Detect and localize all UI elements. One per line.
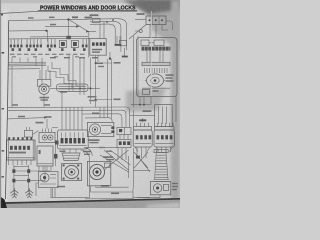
A1 inner line bbox=[135, 143, 152, 145]
K3 divider bbox=[124, 127, 126, 134]
small box B2 bbox=[120, 40, 127, 45]
right edge shadow band bbox=[171, 0, 180, 208]
assembly label line 2 bbox=[166, 77, 173, 78]
connector band ticks bbox=[145, 47, 170, 51]
JB label below 2 bbox=[89, 100, 97, 101]
S3 circle left dot bbox=[44, 137, 46, 139]
master switch right double border bbox=[32, 140, 34, 160]
wire M6 bottom bbox=[137, 195, 160, 198]
mid bus drops bbox=[100, 107, 104, 118]
component circle inner bbox=[43, 176, 46, 179]
left rail down bbox=[11, 66, 13, 107]
JB inner line 2 bbox=[59, 88, 87, 90]
M5 inner box bbox=[105, 163, 110, 167]
label above F1 bbox=[90, 14, 99, 16]
M4 end pins bbox=[111, 126, 114, 129]
node dot cluster bbox=[106, 21, 108, 23]
wire across y147 bbox=[85, 147, 117, 149]
motor M1 feed wires bbox=[40, 70, 50, 79]
assembly bottom box bbox=[143, 89, 150, 94]
console switch inner ticks bbox=[62, 132, 84, 137]
master switch label row bbox=[9, 152, 26, 154]
door lock motor M6 box bbox=[150, 181, 170, 194]
M4 label bbox=[89, 139, 100, 141]
wire U1 drop 2 bbox=[155, 25, 157, 38]
bottom page edge line bbox=[0, 198, 180, 204]
left edge mark y52 bbox=[2, 52, 5, 54]
labels mid row y57 bbox=[50, 57, 98, 58]
ladder connector blob 1 bbox=[12, 169, 15, 173]
node dot y88b bbox=[90, 87, 92, 89]
A2 bottom drops bbox=[157, 147, 171, 152]
assembly bottom label bbox=[153, 90, 159, 92]
node dot 2 bbox=[143, 104, 145, 106]
assembly label line 3 bbox=[166, 80, 174, 81]
motor M1 inner bbox=[42, 87, 47, 92]
dangling connector pair bbox=[117, 36, 120, 44]
conduit rungs bbox=[155, 152, 168, 177]
label r1 bbox=[114, 62, 121, 64]
component circle bbox=[40, 173, 49, 182]
wire to C0 bbox=[135, 30, 139, 32]
wire out of U1 right bbox=[166, 21, 172, 30]
center verticals b bbox=[80, 58, 84, 96]
group box pins bbox=[92, 42, 105, 45]
conduit accordion left rail bbox=[155, 150, 157, 179]
A1 contact blobs bbox=[136, 135, 151, 139]
K4 pins above bbox=[120, 135, 128, 140]
bottom edge dark band bbox=[0, 198, 180, 208]
left mid bus 2 bbox=[9, 65, 47, 67]
relay box K4 bbox=[117, 139, 131, 147]
schematic left border line bbox=[6, 21, 9, 200]
rail 2 bbox=[41, 66, 43, 84]
left edge mark y108 bbox=[2, 108, 4, 110]
actuator center bbox=[154, 79, 157, 82]
M6 label 3 bbox=[172, 189, 177, 190]
group box label 1 bbox=[92, 49, 102, 51]
motor M3 frame bbox=[62, 163, 82, 180]
S3 housing inner mark bbox=[39, 150, 41, 154]
inline connector C0 bbox=[139, 30, 142, 33]
label HOT AT ALL TIMES bbox=[85, 17, 93, 19]
switch S2 tall box bbox=[71, 40, 78, 47]
wire drop to row bbox=[47, 31, 49, 42]
switch row contact blobs row2 bbox=[12, 48, 86, 51]
door switch A1 top bar bbox=[134, 127, 152, 130]
node dot r1 bbox=[95, 62, 97, 64]
label y91 bbox=[60, 91, 67, 93]
ladder rung 2 bbox=[14, 170, 50, 172]
M4 end pin 2 bbox=[111, 130, 114, 133]
motor M1 top block bbox=[37, 79, 50, 86]
ladder rail right bbox=[28, 165, 30, 192]
label r2 bbox=[114, 99, 121, 101]
loop connector blob bbox=[136, 156, 140, 159]
ladder rail left bbox=[13, 165, 15, 192]
cluster label bbox=[36, 122, 44, 124]
cluster ticks bbox=[27, 127, 30, 130]
console switch bottom tabs bbox=[64, 149, 76, 153]
connector end block bbox=[66, 36, 71, 39]
motor M1 center bbox=[43, 88, 45, 90]
group box lower label 2 bbox=[98, 66, 104, 67]
M4 label2 bbox=[90, 142, 99, 143]
node J2 junction dot bbox=[45, 30, 47, 32]
M6 center bbox=[156, 187, 159, 190]
paper crease over assembly bbox=[151, 11, 153, 96]
cross wire y88 bbox=[50, 87, 100, 89]
fuse box F1 bbox=[93, 18, 101, 22]
center verticals a bbox=[69, 55, 73, 91]
master switch left double border bbox=[7, 140, 9, 160]
wire U1 drop 1 bbox=[149, 25, 151, 38]
wire cross y127.5 bbox=[52, 127, 58, 129]
door switch A1 body bbox=[133, 130, 152, 147]
cluster diagonal bbox=[33, 131, 39, 135]
left mid bus 3 bbox=[9, 63, 47, 65]
S3 top pins bbox=[43, 129, 52, 133]
bottom label 2 bbox=[111, 193, 119, 195]
A1 taper bbox=[135, 147, 150, 152]
A2 taper bbox=[156, 147, 173, 152]
actuator side tick R bbox=[164, 80, 166, 82]
left image edge line bbox=[0, 0, 1, 208]
relay U1 inner divider 2 bbox=[158, 16, 160, 25]
wire left bus 2 bbox=[9, 30, 47, 32]
crossing diagonal 3 bbox=[110, 150, 131, 165]
wire diagonal feed bbox=[70, 20, 96, 31]
connector band dark bbox=[142, 47, 171, 51]
motor M5 frame bbox=[87, 161, 110, 185]
row wire labels line1 bbox=[10, 54, 85, 55]
crossing diagonal 4 bbox=[100, 155, 129, 172]
junction block JB bbox=[57, 84, 88, 91]
ladder connector blob 3 bbox=[12, 179, 15, 183]
paper background bbox=[0, 0, 180, 208]
wire stub S bbox=[68, 20, 70, 36]
M6 inner box bbox=[163, 184, 168, 190]
pedestal bbox=[62, 153, 80, 161]
connector arrow A bbox=[86, 30, 89, 32]
switch group box right bbox=[90, 39, 106, 56]
A2 top pins bbox=[158, 123, 174, 127]
title underline bbox=[38, 10, 137, 11]
node dot cluster 2 bbox=[112, 19, 114, 21]
mid page bus 2 bbox=[8, 110, 126, 127]
motor M3 label right bbox=[83, 151, 91, 153]
wire into U1 bbox=[135, 18, 146, 20]
motor M3 oval bbox=[65, 165, 79, 178]
group box bottom stub bbox=[97, 55, 99, 62]
ground G1 bbox=[10, 188, 18, 198]
actuator oval bbox=[147, 74, 164, 87]
cylinder motor M4 body bbox=[87, 122, 113, 136]
relay U1 contact 2 bbox=[155, 19, 157, 21]
crossing diagonal 2 bbox=[104, 150, 129, 170]
M5 center bbox=[95, 170, 98, 173]
row wire labels line2 bbox=[12, 56, 79, 57]
label tag x30 bbox=[28, 17, 34, 19]
motor M1 label bbox=[40, 97, 50, 99]
relay U1 inner divider 1 bbox=[152, 16, 154, 25]
S3 right blob bbox=[54, 154, 58, 159]
motor M3 corner marks bbox=[63, 164, 80, 179]
mid page bus 1 bbox=[8, 107, 130, 127]
top margin strip bbox=[0, 0, 145, 3]
lower center verticals to switch bbox=[62, 107, 82, 130]
M6 circle bbox=[153, 184, 162, 193]
K4 inner blobs bbox=[119, 141, 130, 145]
wire mid y114 bbox=[82, 114, 122, 128]
component drop wire bbox=[36, 183, 38, 196]
wire U1 drop 3 bbox=[162, 25, 168, 30]
M5 label above2 bbox=[106, 159, 114, 160]
right rail lower bbox=[132, 148, 134, 188]
component box lower-left-right bbox=[38, 172, 58, 188]
S3 circle left bbox=[42, 135, 47, 140]
bottom-right light sliver bbox=[146, 203, 180, 208]
wire M1 to bus bbox=[43, 94, 45, 107]
feed wire arrow bbox=[44, 117, 47, 119]
door switch A2 body bbox=[154, 130, 175, 147]
connector arrow B bbox=[76, 25, 80, 28]
label tag 2 bbox=[49, 17, 55, 19]
scattered label b bbox=[106, 151, 112, 152]
dangling connector 2 bbox=[124, 48, 126, 56]
M4 body lines bbox=[101, 126, 112, 134]
wire vertical x88 bbox=[88, 31, 90, 57]
component bottom pair bbox=[51, 188, 55, 197]
motor M1 gear circle bbox=[39, 84, 49, 94]
M4 center bbox=[94, 128, 96, 130]
left edge page mark 2 bbox=[1, 176, 4, 178]
small switch cluster box bbox=[24, 130, 32, 137]
console switch inner line bbox=[59, 145, 87, 147]
mid bus labels bbox=[92, 113, 99, 115]
switch row bus bbox=[9, 37, 90, 40]
actuator side tick L bbox=[145, 80, 147, 82]
K4 bottom drops bbox=[118, 148, 126, 160]
relay K2 tall box bbox=[155, 105, 173, 127]
M5 label above bbox=[103, 156, 113, 158]
assembly inner box 2 bbox=[154, 40, 164, 46]
ladder connector blob 2 bbox=[27, 169, 30, 173]
motor M3 label right2 bbox=[84, 154, 90, 155]
bottom left long wire bbox=[51, 196, 90, 198]
S3 circle right bbox=[48, 135, 53, 140]
wire right of K2 down bbox=[175, 97, 177, 122]
ladder drop a bbox=[44, 166, 46, 181]
fuse label 30A bbox=[72, 16, 78, 18]
bottom label bbox=[57, 186, 65, 188]
label left of U1 bbox=[137, 13, 145, 15]
lower-left feed label bbox=[18, 116, 25, 118]
A1 bottom drops bbox=[137, 147, 146, 158]
label tag bbox=[50, 24, 56, 26]
bottom wire vertical bbox=[52, 188, 54, 197]
scan grain overlay bbox=[0, 0, 180, 208]
wire top bus 1 bbox=[9, 19, 127, 50]
staircase wire 2 bbox=[52, 62, 84, 86]
center vertical pair x107 bbox=[107, 59, 109, 118]
relay box K3 bbox=[117, 127, 131, 134]
door lock assembly outer box bbox=[137, 38, 178, 97]
row drop stubs bbox=[12, 58, 42, 66]
A1 top pins bbox=[137, 123, 149, 127]
wire between inner boxes bbox=[149, 42, 154, 44]
wire diagonal from relay bbox=[129, 25, 146, 39]
master switch top pins bbox=[8, 137, 32, 140]
right fold shadow mid bbox=[126, 88, 166, 112]
lower-right diagonals bbox=[134, 152, 150, 172]
switch row bus upper bbox=[30, 35, 88, 38]
ladder rung 3 bbox=[14, 175, 29, 177]
loop horizontal wire bbox=[133, 170, 150, 172]
master switch bottom stubs bbox=[9, 160, 32, 165]
wire left drop bbox=[133, 110, 135, 130]
console switch outer bbox=[57, 130, 88, 149]
left mid bus 4 bbox=[9, 68, 41, 70]
M5 inner ring bbox=[93, 168, 101, 176]
relay U1 bbox=[146, 16, 166, 25]
mid bus label b bbox=[44, 104, 50, 106]
A1 stem T-bar bbox=[139, 119, 146, 121]
JB label below bbox=[88, 96, 97, 98]
assembly verticals bbox=[147, 51, 163, 62]
master switch connector outer bbox=[7, 140, 36, 160]
motor M1 label 2 bbox=[41, 99, 49, 100]
conduit accordion right rail bbox=[166, 150, 168, 179]
ladder rung 4 bbox=[14, 180, 45, 182]
motor M3 inner bbox=[68, 169, 75, 175]
S3 label bbox=[45, 116, 52, 118]
ground G2 bbox=[25, 188, 33, 198]
S3 feed stem bbox=[46, 119, 48, 129]
wire vertical drop x104 bbox=[103, 22, 105, 39]
wire JB drop bbox=[61, 91, 63, 107]
switch row pins group A bbox=[11, 39, 87, 44]
wire curve right rail2 bbox=[84, 148, 92, 156]
tick label r2 bbox=[96, 99, 112, 101]
bottom-left black corner bbox=[0, 197, 7, 209]
wire assembly out bottom bbox=[131, 97, 151, 105]
main center rail bbox=[95, 55, 97, 107]
band 2 hatch bbox=[145, 68, 168, 73]
switch row contact blobs row1 bbox=[10, 45, 88, 48]
left mid bus 1 bbox=[9, 61, 47, 63]
bottom bus right vertical bbox=[132, 188, 134, 199]
node dot r2 bbox=[95, 99, 97, 101]
wire curve right rail bbox=[81, 150, 90, 197]
M6 label 1 bbox=[172, 183, 178, 184]
motor M3 center bbox=[70, 171, 73, 174]
wire branch w2 bbox=[45, 25, 76, 27]
wire across lower right bbox=[133, 197, 150, 199]
wire drops above relay bbox=[140, 97, 144, 106]
assembly bottom wire bbox=[142, 87, 170, 89]
relay U1 contact 3 bbox=[161, 19, 163, 21]
wire into K2 bbox=[130, 115, 155, 117]
door switch A1 stem bbox=[142, 118, 144, 123]
M6 label 2 bbox=[172, 186, 178, 187]
actuator inner bbox=[151, 77, 159, 83]
center vertical pair x111 bbox=[111, 59, 113, 118]
page top edge line bbox=[0, 11, 38, 13]
console label dash bbox=[60, 151, 66, 152]
conduit flare bbox=[153, 180, 170, 182]
connector band 2 bbox=[142, 62, 170, 65]
node J1 junction dot bbox=[67, 18, 69, 20]
lockout switch S3 box bbox=[39, 132, 55, 142]
conduit top bar bbox=[154, 150, 168, 153]
scattered label a bbox=[99, 147, 105, 148]
group box label 2 bbox=[92, 51, 100, 52]
staircase wire 1 bbox=[48, 66, 72, 89]
lower-left feed wire bbox=[7, 118, 45, 119]
top-right dark corner shadow bbox=[122, 0, 180, 17]
M5 bottom stub bbox=[90, 186, 92, 192]
mid bus label a bbox=[12, 104, 18, 106]
S3 housing box bbox=[37, 146, 53, 166]
relay K2 inner pins bbox=[159, 107, 167, 125]
relay U1 contacts bbox=[149, 19, 151, 21]
pedestal stripe bbox=[63, 156, 80, 159]
S3 housing bottom double bbox=[37, 163, 53, 165]
left edge tick mark bbox=[0, 14, 3, 16]
switch S2 inner bbox=[73, 42, 77, 46]
stub connector mid bbox=[109, 52, 111, 58]
console switch contact blobs bbox=[61, 138, 85, 143]
M4 circle inner bbox=[92, 127, 98, 133]
node dot y88a bbox=[79, 88, 81, 90]
wire y187 bbox=[95, 186, 129, 188]
master switch inner contact row bbox=[10, 146, 30, 150]
M5 circle bbox=[89, 164, 104, 179]
A2 inner line bbox=[155, 143, 173, 145]
dangling connector 2 T-bar bbox=[122, 56, 128, 58]
K3 inner blob bbox=[119, 129, 122, 132]
center vertical c bbox=[90, 58, 92, 105]
left edge page mark 1 bbox=[2, 150, 5, 152]
wire top bus 2 bbox=[90, 21, 121, 52]
bottom bus 2 bbox=[85, 198, 133, 200]
assembly inner box 1 bbox=[141, 40, 149, 46]
stub connector dot bbox=[109, 57, 111, 59]
S3 circle right dot bbox=[50, 137, 52, 139]
wire mid y118 bbox=[85, 118, 112, 123]
housing stubs bbox=[39, 166, 51, 171]
S3 right rail bbox=[55, 144, 57, 166]
switch S1 tall box bbox=[59, 40, 66, 47]
right rail lower 2 bbox=[128, 156, 130, 178]
wire right verticals bbox=[134, 36, 138, 107]
left margin light strip bbox=[2, 10, 9, 202]
label near K2 bbox=[143, 110, 152, 112]
ladder connector blob 4 bbox=[27, 179, 30, 183]
wire vertical drop x100 bbox=[99, 24, 101, 38]
crossing diagonal 1 bbox=[104, 150, 129, 170]
ladder rung 1 bbox=[14, 166, 29, 168]
JB inner line 1 bbox=[59, 85, 87, 87]
dangling connector T-bar bbox=[115, 44, 122, 46]
component inner lines bbox=[40, 175, 56, 184]
group box lower label 1 bbox=[96, 63, 103, 65]
wire top bus 3 bbox=[90, 24, 115, 44]
bottom bus 1 bbox=[91, 191, 134, 193]
M4 circle bbox=[89, 124, 100, 135]
switch S1 inner bbox=[61, 42, 65, 46]
